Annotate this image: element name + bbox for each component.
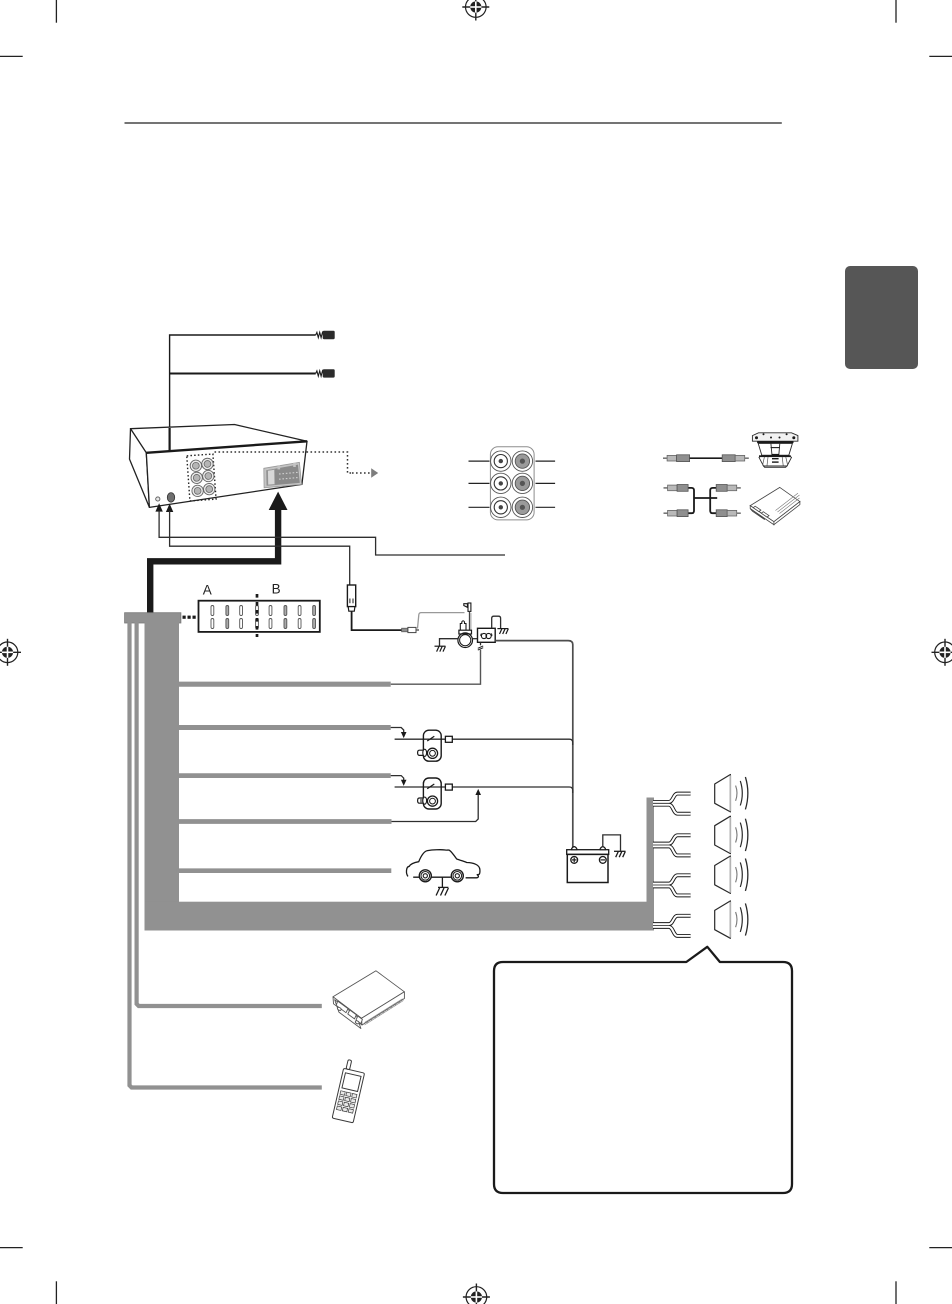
RCA jack gray R1 <box>512 451 532 471</box>
accessory Y-cable H wire <box>687 488 717 513</box>
antenna lead 2 plug <box>323 369 335 377</box>
motor antenna mast cylinder <box>459 621 472 634</box>
section tab right edge <box>845 266 918 369</box>
battery minus symbol <box>599 857 606 864</box>
ground (car) <box>436 887 448 895</box>
Y-cable plug bottom-left <box>664 510 689 517</box>
registration target left-edge <box>0 639 21 666</box>
registration target bottom-center <box>463 1284 490 1304</box>
speaker wire pair 3 <box>653 875 691 895</box>
accessory RCA cable left plug <box>663 455 690 462</box>
battery ground wire <box>603 835 621 851</box>
head unit antenna wire entering top <box>169 428 171 459</box>
speaker 1 <box>715 775 748 812</box>
head unit rear RCA panel (dotted) <box>187 454 216 501</box>
fuse / antenna jack pennant <box>464 603 471 611</box>
antenna lead wire 1 <box>170 335 316 459</box>
wiring harness connector bar <box>125 613 181 623</box>
relay wire loop to ground <box>492 616 501 628</box>
mobile phone <box>332 1059 367 1123</box>
antenna lead 1 strain coil <box>316 332 324 337</box>
crop mark top-right horizontal <box>929 55 952 57</box>
speaker wire pair 4 <box>653 916 691 936</box>
RCA jack white L1 <box>491 451 511 471</box>
A/B divider dashed line <box>256 594 259 637</box>
gray branch 5 (ground to car) <box>177 868 391 873</box>
small arrow 2 under unit <box>166 504 173 512</box>
gray branch 4 (memory) <box>178 819 392 824</box>
wire motor to relay box <box>473 638 478 640</box>
Y-cable plug top-right <box>716 485 741 492</box>
thick power harness wire <box>150 508 278 614</box>
gray branch 1 (power antenna) <box>178 682 391 687</box>
key switch 1 inline connector square <box>445 736 452 742</box>
ground (battery) <box>614 851 626 857</box>
accessory amplifier box <box>750 487 800 524</box>
crop mark top-left horizontal <box>0 55 23 57</box>
motor antenna body (double circle) <box>458 633 473 648</box>
gray lead from female connector to fuse <box>418 613 465 629</box>
thin wire from port 2 to antenna plug <box>170 511 350 585</box>
head unit front face <box>146 441 307 507</box>
ground (motor left) <box>435 646 446 651</box>
RCA jack gray R2 <box>512 473 532 493</box>
key switch 2 inline connector square <box>445 784 452 790</box>
wire motor to left ground <box>440 639 458 647</box>
crop mark bottom-right vertical <box>895 1281 897 1304</box>
speaker 4 <box>715 901 748 938</box>
CD changer box <box>333 971 404 1029</box>
RCA detail callout line R1 <box>536 460 556 462</box>
crop mark top-left vertical <box>55 0 57 23</box>
car ground lead <box>441 877 443 887</box>
head unit small round port <box>156 497 160 501</box>
RCA jack gray R3 <box>512 497 532 517</box>
gray thin wire to CD changer <box>137 622 322 1006</box>
ignition key switch 1 wire <box>395 739 573 745</box>
RCA detail panel body <box>490 447 534 520</box>
registration target right-edge <box>932 639 952 666</box>
antenna female connector <box>402 627 419 632</box>
speaker 3 <box>715 856 748 893</box>
ignition key switch 1 <box>418 730 442 761</box>
ignition key switch 2 <box>418 778 442 809</box>
antenna lead 2 strain coil <box>316 371 324 376</box>
registration target top-center <box>462 0 489 21</box>
RCA detail callout line L2 <box>469 482 490 484</box>
top rule <box>125 122 782 124</box>
antenna plug lead down and right <box>352 611 402 630</box>
thin wire from port 1 <box>159 511 505 556</box>
small arrow 1 under unit <box>155 503 162 511</box>
branch4 lead and up arrow <box>392 795 479 822</box>
accessory subwoofer (rear view) <box>752 433 798 468</box>
svg-text:B: B <box>272 582 281 597</box>
A/B connector block <box>199 601 320 632</box>
gray branch 3 (battery) <box>178 773 391 778</box>
gray harness trunk vertical <box>145 622 180 931</box>
head unit left face <box>130 429 150 508</box>
gray thin wire to phone <box>130 622 322 1088</box>
note speech bubble <box>494 947 792 1193</box>
car wheel front <box>419 870 431 882</box>
svg-text:A: A <box>203 583 212 598</box>
accessory RCA cable cord <box>690 457 723 459</box>
crop mark bottom-left vertical <box>55 1281 57 1304</box>
lead from fuse down to antenna motor <box>469 611 471 631</box>
accessory RCA cable right plug <box>722 455 749 462</box>
battery lid <box>567 850 609 855</box>
big black arrow into main connector <box>269 492 288 510</box>
gray branch 2 (ACC) <box>178 725 391 730</box>
crop mark bottom-left horizontal <box>0 1247 23 1249</box>
noise suppressor / relay box <box>478 628 496 642</box>
crop mark top-right vertical <box>895 0 897 23</box>
A/B connector pins <box>211 606 316 629</box>
relay coil <box>481 633 492 638</box>
wire break continuation down to branch1 <box>391 650 481 684</box>
speaker wire pair 2 <box>653 835 691 855</box>
Y-cable plug bottom-right <box>716 510 741 517</box>
Y-cable plug top-left <box>664 485 689 492</box>
head unit main connector <box>264 462 302 488</box>
ground (relay) <box>497 629 508 634</box>
dots between connector and A/B block <box>183 616 196 619</box>
head unit top face <box>131 425 308 453</box>
antenna lead wire 2 <box>170 373 316 375</box>
RCA detail callout line L1 <box>469 460 490 462</box>
car underside line <box>413 876 451 878</box>
antenna lead 1 plug <box>323 331 335 339</box>
dotted callout arrowhead <box>371 468 378 477</box>
crop mark bottom-right horizontal <box>929 1247 952 1249</box>
wire relay to battery drop <box>495 641 573 847</box>
RCA jack white L2 <box>491 473 511 493</box>
branch3 lead and down arrow <box>391 776 404 781</box>
gray speaker feed bar <box>647 798 655 931</box>
ignition key switch 2 wire <box>395 787 573 793</box>
RCA detail callout line R2 <box>536 482 556 484</box>
battery terminal dome - <box>600 847 605 850</box>
RCA jack white L3 <box>491 497 511 517</box>
car wheel rear <box>451 870 463 882</box>
battery body <box>567 854 608 882</box>
head unit front-top edge (bold) <box>146 441 307 453</box>
RCA detail callout line L3 <box>469 506 490 508</box>
antenna male plug body <box>347 585 355 611</box>
speaker 2 <box>715 816 748 853</box>
speaker wire pair 1 <box>653 794 691 814</box>
battery plus symbol <box>571 857 578 864</box>
head unit oval port <box>167 493 174 503</box>
gray harness trunk horizontal <box>145 902 655 931</box>
branch2 lead and down arrow <box>391 728 404 733</box>
battery terminal dome + <box>572 847 577 850</box>
dotted callout line from RCA panel <box>215 452 353 473</box>
RCA detail callout line R3 <box>536 506 556 508</box>
wire relay bottom with break mark <box>480 642 482 645</box>
car silhouette <box>406 850 479 878</box>
